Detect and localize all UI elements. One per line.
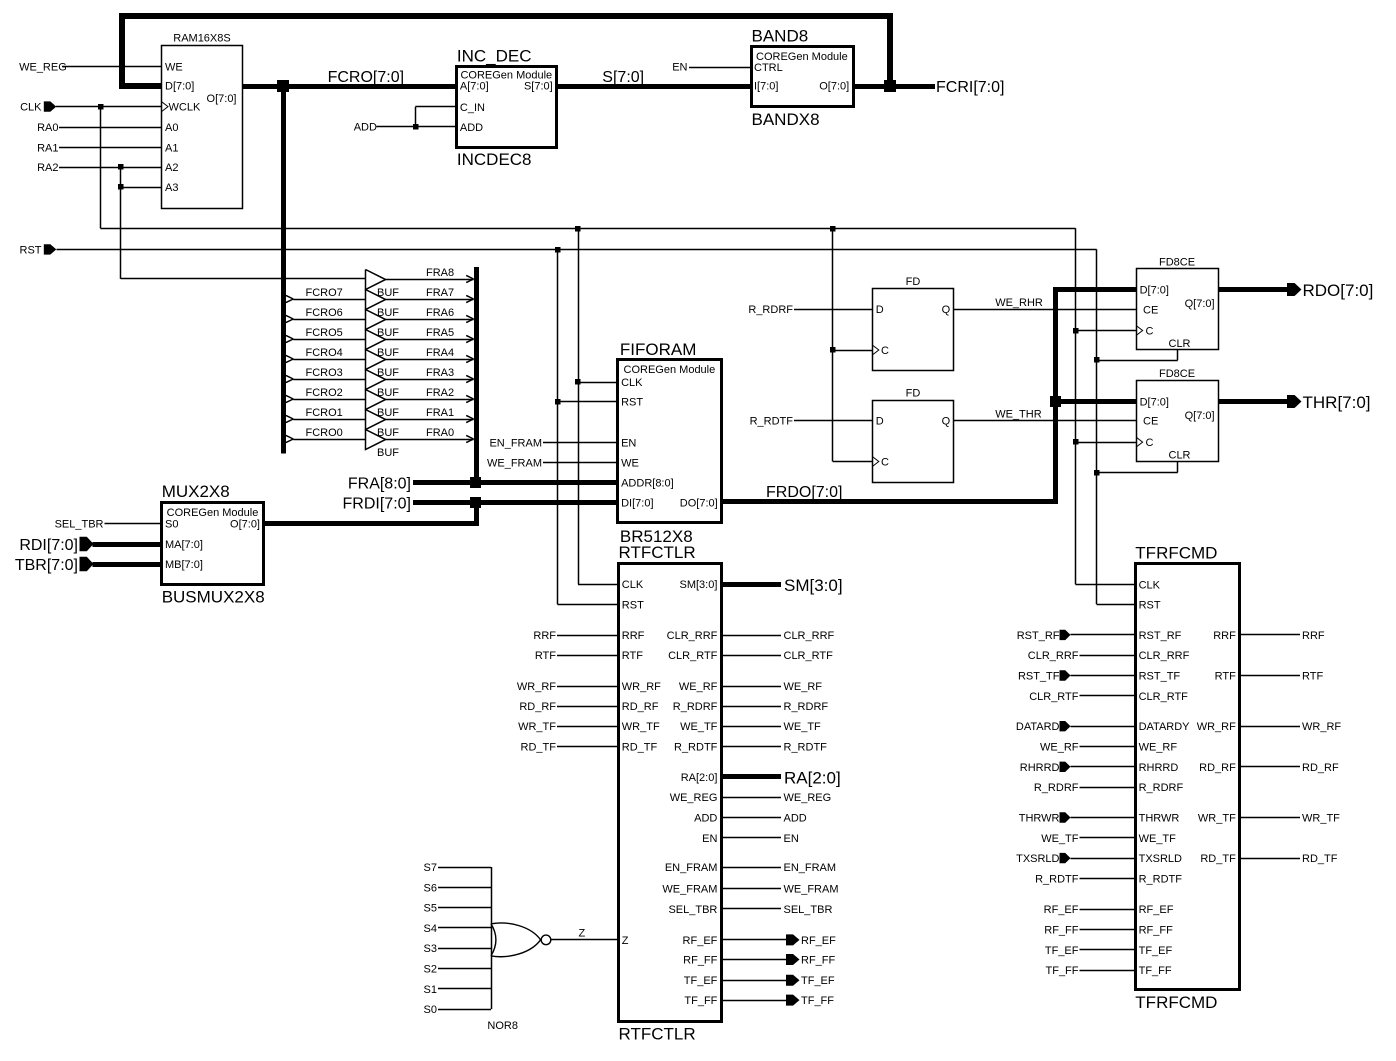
svg-text:EN_FRAM: EN_FRAM	[784, 862, 837, 874]
svg-text:RD_RF: RD_RF	[622, 701, 659, 713]
svg-text:S2: S2	[424, 964, 437, 976]
ram U_RAM16X8S	[162, 33, 243, 209]
svg-text:A0: A0	[165, 122, 178, 134]
port WE_TF input to TFRFCMD	[1041, 833, 1135, 845]
svg-text:FCRO6: FCRO6	[306, 307, 343, 319]
svg-text:CLR_RRF: CLR_RRF	[667, 630, 718, 642]
svg-text:WR_RF: WR_RF	[1302, 721, 1341, 733]
svg-text:D[7:0]: D[7:0]	[1140, 285, 1169, 297]
svg-text:WR_TF: WR_TF	[518, 721, 556, 733]
wire CLK branch to FD flip-flops	[833, 228, 873, 461]
svg-text:C: C	[881, 345, 889, 357]
svg-text:RDI[7:0]: RDI[7:0]	[19, 537, 78, 554]
bus THR[7:0] output	[1218, 399, 1287, 404]
junction FRDI	[470, 497, 481, 508]
svg-text:COREGen Module: COREGen Module	[624, 364, 716, 376]
svg-text:CLK: CLK	[1139, 579, 1161, 591]
svg-text:CLR_RRF: CLR_RRF	[1139, 650, 1190, 662]
svg-text:Z: Z	[622, 935, 629, 947]
svg-text:RA1: RA1	[37, 142, 58, 154]
svg-text:FRA0: FRA0	[426, 427, 454, 439]
port EN label and wire	[672, 62, 751, 74]
bus FCRO vertical to BUF taps	[281, 86, 286, 454]
svg-text:R_RDRF: R_RDRF	[748, 304, 793, 316]
gate U_NOR8	[424, 862, 551, 1032]
svg-text:RTF: RTF	[1215, 671, 1236, 683]
svg-text:Q[7:0]: Q[7:0]	[1185, 410, 1215, 422]
port RF_FF output	[721, 954, 836, 967]
svg-text:RD_TF: RD_TF	[1302, 853, 1338, 865]
svg-text:R_RDTF: R_RDTF	[750, 416, 794, 428]
svg-text:RD_RF: RD_RF	[1199, 762, 1236, 774]
junction FCRI	[884, 80, 896, 92]
svg-text:WE_THR: WE_THR	[995, 409, 1041, 421]
port RA1 input label and wire	[37, 142, 161, 154]
svg-text:CLR_RTF: CLR_RTF	[1029, 691, 1079, 703]
svg-text:FCRO1: FCRO1	[306, 407, 343, 419]
net ADD from RTFCTLR	[721, 813, 807, 825]
port RST_TF input to TFRFCMD	[1018, 670, 1135, 682]
bus BUSMUX output riser to FRDI	[264, 503, 477, 524]
svg-text:FD: FD	[906, 276, 921, 288]
svg-text:O[7:0]: O[7:0]	[207, 93, 237, 105]
junction RA2 at A3	[118, 184, 124, 190]
svg-text:C_IN: C_IN	[460, 102, 485, 114]
junction RST FIFORAM pin	[555, 399, 561, 405]
svg-text:CLR_RTF: CLR_RTF	[668, 650, 718, 662]
net RRF output from TFRFCMD	[1239, 630, 1325, 642]
svg-text:R_RDRF: R_RDRF	[673, 701, 718, 713]
svg-text:SEL_TBR: SEL_TBR	[55, 519, 104, 531]
block U_INCDEC8 INC_DEC	[457, 46, 557, 169]
svg-text:R_RDTF: R_RDTF	[1035, 873, 1079, 885]
svg-text:FRDI[7:0]: FRDI[7:0]	[343, 496, 411, 513]
svg-text:BUSMUX2X8: BUSMUX2X8	[162, 588, 265, 607]
svg-text:FCRO0: FCRO0	[306, 427, 343, 439]
port TF_EF output	[721, 975, 835, 988]
wire CLK branch to FD8CE clocks	[1076, 331, 1137, 443]
wire RST branch to FIFORAM and RTFCTLR	[558, 249, 619, 604]
net R_RDTF from RTFCTLR	[721, 741, 827, 753]
net CLR_RRF from RTFCTLR	[721, 630, 835, 642]
svg-text:RST_RF: RST_RF	[1139, 630, 1182, 642]
svg-text:S0: S0	[165, 519, 178, 531]
svg-text:FCRI[7:0]: FCRI[7:0]	[936, 79, 1004, 96]
svg-text:CLR_RTF: CLR_RTF	[784, 650, 834, 662]
svg-text:CLR: CLR	[1169, 338, 1191, 350]
svg-text:FCRO4: FCRO4	[306, 347, 343, 359]
port WE_RF input to TFRFCMD	[1040, 742, 1135, 754]
bus RA[2:0] output	[721, 774, 781, 779]
block U_RTFCTLR	[619, 543, 722, 1044]
net WE_FRAM from RTFCTLR	[721, 884, 839, 896]
svg-text:S[7:0]: S[7:0]	[602, 69, 644, 86]
svg-text:WE_TF: WE_TF	[784, 721, 822, 733]
svg-text:RST: RST	[621, 397, 643, 409]
port RF_FF input to TFRFCMD	[1044, 925, 1135, 937]
svg-text:WCLK: WCLK	[169, 102, 201, 114]
svg-text:SM[3:0]: SM[3:0]	[784, 576, 843, 595]
port RA2 input label	[37, 162, 58, 174]
port RD_RF input to RTFCTLR	[519, 701, 618, 713]
svg-text:WE_RF: WE_RF	[1040, 742, 1079, 754]
svg-text:RD_RF: RD_RF	[1302, 762, 1339, 774]
block U_TFRFCMD	[1135, 544, 1239, 1012]
svg-text:MB[7:0]: MB[7:0]	[165, 559, 203, 571]
net RD_TF output from TFRFCMD	[1239, 853, 1337, 865]
svg-text:A3: A3	[165, 182, 178, 194]
svg-text:TF_EF: TF_EF	[1139, 945, 1173, 957]
svg-text:WE_FRAM: WE_FRAM	[487, 457, 542, 469]
svg-text:RST: RST	[622, 599, 644, 611]
svg-text:CLR_RRF: CLR_RRF	[1028, 650, 1079, 662]
port RD_TF input to RTFCTLR	[521, 741, 619, 753]
svg-text:WE_RF: WE_RF	[784, 681, 823, 693]
svg-text:RTF: RTF	[535, 650, 556, 662]
svg-text:FCRO5: FCRO5	[306, 327, 343, 339]
svg-text:WR_RF: WR_RF	[1197, 721, 1236, 733]
svg-text:RF_EF: RF_EF	[1044, 904, 1079, 916]
svg-text:RTFCTLR: RTFCTLR	[619, 1025, 696, 1044]
svg-text:COREGen Module: COREGen Module	[167, 507, 259, 519]
svg-text:ADD: ADD	[784, 813, 807, 825]
svg-text:S3: S3	[424, 943, 437, 955]
svg-text:RD_TF: RD_TF	[521, 741, 557, 753]
port R_RDTF input to TFRFCMD	[1035, 873, 1135, 885]
svg-text:WE_REG: WE_REG	[670, 792, 718, 804]
bus TBR[7:0] input	[93, 562, 162, 567]
port RRF input to RTFCTLR	[533, 630, 618, 642]
svg-text:DO[7:0]: DO[7:0]	[680, 498, 718, 510]
svg-text:ADDR[8:0]: ADDR[8:0]	[621, 478, 674, 490]
svg-text:ADD: ADD	[354, 122, 377, 134]
svg-text:WE_RF: WE_RF	[1139, 742, 1178, 754]
port CLR_RTF input to TFRFCMD	[1029, 691, 1135, 703]
port RST_RF input to TFRFCMD	[1017, 630, 1135, 642]
svg-text:EN: EN	[621, 438, 636, 450]
svg-text:TXSRLD: TXSRLD	[1139, 853, 1182, 865]
svg-text:RTF: RTF	[1302, 671, 1323, 683]
svg-text:TF_EF: TF_EF	[1045, 945, 1079, 957]
svg-text:RST: RST	[20, 244, 42, 256]
net WE_TF from RTFCTLR	[721, 721, 821, 733]
svg-text:WR_TF: WR_TF	[1198, 813, 1236, 825]
junction RST column FIFORAM	[555, 247, 561, 253]
svg-text:RTFCTLR: RTFCTLR	[619, 543, 696, 562]
svg-text:CLR: CLR	[1169, 450, 1191, 462]
svg-text:FRA4: FRA4	[426, 347, 454, 359]
svg-text:TF_FF: TF_FF	[801, 995, 834, 1007]
port EN_FRAM label and wire	[489, 438, 617, 450]
junction CLK column FIFORAM	[575, 226, 581, 232]
pins RTFCTLR left pin names	[622, 579, 661, 947]
net CLR_RTF from RTFCTLR	[721, 650, 833, 662]
svg-text:RF_FF: RF_FF	[1139, 925, 1174, 937]
pins TFRFCMD left pin names	[1139, 579, 1191, 977]
svg-text:RF_FF: RF_FF	[683, 955, 718, 967]
wire CLK branch to FIFORAM and RTFCTLR	[578, 228, 618, 584]
svg-text:WE_TF: WE_TF	[1139, 833, 1177, 845]
svg-text:TFRFCMD: TFRFCMD	[1135, 544, 1217, 563]
bus SM[3:0] output	[721, 582, 781, 587]
svg-text:O[7:0]: O[7:0]	[819, 81, 849, 93]
bus FRDI[7:0] into FIFORAM DI	[413, 500, 618, 505]
svg-text:R_RDTF: R_RDTF	[1139, 873, 1183, 885]
buffer BUF bit 1	[286, 407, 474, 439]
port SEL_TBR label and wire	[55, 519, 162, 531]
buffer BUF bit 8	[366, 267, 474, 299]
port TF_EF input to TFRFCMD	[1045, 945, 1135, 957]
wire R_RDRF to FD1 D	[748, 304, 872, 316]
svg-text:RA[2:0]: RA[2:0]	[784, 769, 841, 788]
svg-text:EN_FRAM: EN_FRAM	[489, 438, 542, 450]
port TF_FF output	[721, 995, 834, 1008]
svg-text:EN: EN	[672, 62, 687, 74]
bus FCRI feedback loop top	[122, 16, 890, 86]
buffer BUF bit 3	[286, 367, 474, 399]
svg-text:SM[3:0]: SM[3:0]	[679, 579, 717, 591]
svg-text:Q: Q	[942, 416, 951, 428]
svg-text:FCRO[7:0]: FCRO[7:0]	[328, 69, 404, 86]
net RD_RF output from TFRFCMD	[1239, 762, 1339, 774]
svg-text:TF_EF: TF_EF	[684, 975, 718, 987]
svg-text:SEL_TBR: SEL_TBR	[784, 904, 833, 916]
svg-text:RTF: RTF	[622, 650, 643, 662]
wire RA2 net to A2 A3 and top BUF input	[59, 167, 365, 279]
svg-text:CLK: CLK	[621, 377, 643, 389]
svg-text:RF_EF: RF_EF	[1139, 904, 1174, 916]
net WR_TF output from TFRFCMD	[1239, 813, 1340, 825]
svg-text:MUX2X8: MUX2X8	[162, 482, 230, 501]
svg-text:WE_TF: WE_TF	[680, 721, 718, 733]
wire RST branch to FD8CE CLR pins	[1097, 350, 1178, 473]
svg-text:TBR[7:0]: TBR[7:0]	[15, 557, 78, 574]
port TBR[7:0] input	[15, 557, 94, 574]
svg-text:RD_TF: RD_TF	[1200, 853, 1236, 865]
junction FRDO	[1050, 396, 1061, 407]
svg-text:S4: S4	[424, 923, 437, 935]
net WE_REG from RTFCTLR	[721, 792, 831, 804]
svg-text:TF_FF: TF_FF	[1046, 965, 1079, 977]
svg-text:RA[2:0]: RA[2:0]	[681, 772, 718, 784]
svg-text:INC_DEC: INC_DEC	[457, 46, 532, 65]
junction CLK FIFORAM pin	[575, 379, 581, 385]
junction CLK column FD	[830, 226, 836, 232]
junction FRA	[470, 477, 481, 488]
svg-text:WE_RF: WE_RF	[679, 681, 718, 693]
svg-text:Z: Z	[579, 928, 586, 940]
bus FRDO[7:0] from FIFORAM DO to FD8CE D inputs	[722, 290, 1137, 502]
bus RDI[7:0] input	[93, 542, 162, 547]
svg-text:FRA[8:0]: FRA[8:0]	[348, 476, 411, 493]
wire Z NOR8 to RTFCTLR	[551, 928, 618, 940]
svg-text:CLK: CLK	[622, 579, 644, 591]
svg-text:CLR_RRF: CLR_RRF	[784, 630, 835, 642]
svg-text:WE: WE	[165, 62, 183, 74]
svg-text:EN: EN	[784, 833, 799, 845]
svg-text:CLK: CLK	[20, 102, 42, 114]
bus FRA[8:0] into FIFORAM ADDR	[413, 480, 618, 485]
wire WE_RHR FD1 Q to FD8CE1 CE	[954, 297, 1136, 310]
port DATARD input to TFRFCMD	[1016, 721, 1135, 733]
svg-text:RF_EF: RF_EF	[683, 935, 718, 947]
buffer BUF bit 2	[286, 387, 474, 419]
port WE_FRAM label and wire	[487, 457, 618, 469]
pins TFRFCMD right pin names	[1197, 630, 1236, 865]
svg-text:S5: S5	[424, 903, 437, 915]
net WE_RF from RTFCTLR	[721, 681, 822, 693]
junction FD8CE2 clock	[1073, 439, 1079, 445]
svg-text:S[7:0]: S[7:0]	[524, 81, 553, 93]
junction CLK at WCLK	[98, 104, 104, 110]
svg-text:DI[7:0]: DI[7:0]	[621, 498, 653, 510]
svg-text:RST_TF: RST_TF	[1018, 671, 1060, 683]
net RTF output from TFRFCMD	[1239, 671, 1323, 683]
svg-text:CLR_RTF: CLR_RTF	[1139, 691, 1189, 703]
svg-text:RA0: RA0	[37, 122, 58, 134]
svg-text:S0: S0	[424, 1004, 437, 1016]
svg-text:C: C	[1146, 326, 1154, 338]
wire CLK net horizontal/vertical distribution	[56, 107, 1135, 585]
svg-text:FD8CE: FD8CE	[1159, 257, 1195, 269]
svg-text:RHRRD: RHRRD	[1139, 762, 1179, 774]
svg-text:R_RDRF: R_RDRF	[1034, 782, 1079, 794]
wire RST net distribution	[57, 249, 1136, 604]
register U_FD8CE2 FD8CE	[1136, 368, 1218, 461]
svg-text:RRF: RRF	[533, 630, 556, 642]
svg-text:R_RDRF: R_RDRF	[1139, 782, 1184, 794]
port RA0 input label and wire	[37, 122, 161, 134]
svg-text:RA2: RA2	[37, 162, 58, 174]
svg-text:RRF: RRF	[1213, 630, 1236, 642]
port TF_FF input to TFRFCMD	[1046, 965, 1136, 977]
svg-text:WE_REG: WE_REG	[784, 792, 832, 804]
junction FD1 clock	[830, 347, 836, 353]
svg-text:EN_FRAM: EN_FRAM	[665, 862, 718, 874]
svg-text:A[7:0]: A[7:0]	[460, 81, 489, 93]
svg-text:RD_RF: RD_RF	[519, 701, 556, 713]
svg-text:Q[7:0]: Q[7:0]	[1185, 298, 1215, 310]
svg-text:TFRFCMD: TFRFCMD	[1135, 993, 1217, 1012]
svg-text:WR_RF: WR_RF	[622, 681, 661, 693]
port WR_TF input to RTFCTLR	[518, 721, 618, 733]
bus FRA vertical from BUF outputs	[474, 267, 479, 483]
junction FD8CE1 clock	[1073, 328, 1079, 334]
svg-text:BAND8: BAND8	[752, 27, 809, 46]
svg-text:O[7:0]: O[7:0]	[230, 519, 260, 531]
svg-text:RRF: RRF	[622, 630, 645, 642]
svg-text:CE: CE	[1143, 416, 1158, 428]
svg-text:RRF: RRF	[1302, 630, 1325, 642]
svg-text:S7: S7	[424, 862, 437, 874]
svg-text:FRDO[7:0]: FRDO[7:0]	[766, 484, 842, 501]
svg-text:RDO[7:0]: RDO[7:0]	[1303, 281, 1374, 300]
buffer BUF bit 6	[286, 307, 474, 339]
port ADD input label and wires	[354, 107, 457, 134]
svg-text:WE: WE	[621, 457, 639, 469]
svg-text:TF_EF: TF_EF	[801, 975, 835, 987]
svg-text:WE_REG: WE_REG	[19, 62, 67, 74]
svg-text:R_RDTF: R_RDTF	[674, 741, 718, 753]
bus S[7:0] INC_DEC to BAND8	[556, 84, 751, 89]
junction RA2 at A2	[118, 164, 124, 170]
svg-text:CE: CE	[1143, 304, 1158, 316]
svg-text:A1: A1	[165, 142, 178, 154]
svg-text:R_RDRF: R_RDRF	[784, 701, 829, 713]
svg-text:R_RDTF: R_RDTF	[784, 741, 828, 753]
svg-text:D: D	[876, 304, 884, 316]
wire R_RDTF to FD2 D	[750, 416, 873, 428]
svg-text:ADD: ADD	[460, 122, 483, 134]
net WR_RF output from TFRFCMD	[1239, 721, 1341, 733]
port RF_EF input to TFRFCMD	[1044, 904, 1135, 916]
buffer BUF bit 4	[286, 347, 474, 379]
port RF_EF output	[721, 934, 836, 947]
svg-text:FD: FD	[906, 388, 921, 400]
svg-text:RF_FF: RF_FF	[1044, 925, 1079, 937]
svg-text:FRA2: FRA2	[426, 387, 454, 399]
block U_BUSMUX2X8 MUX2X8	[162, 482, 265, 607]
svg-text:DATARDY: DATARDY	[1139, 721, 1191, 733]
svg-text:I[7:0]: I[7:0]	[754, 81, 778, 93]
svg-text:WE_RHR: WE_RHR	[995, 297, 1043, 309]
port RTF input to RTFCTLR	[535, 650, 618, 662]
buffer BUF bit 7	[286, 287, 474, 319]
svg-text:EN: EN	[702, 833, 717, 845]
svg-text:WR_RF: WR_RF	[517, 681, 556, 693]
svg-text:D: D	[876, 416, 884, 428]
svg-text:THRWR: THRWR	[1019, 813, 1060, 825]
junction FD8CE2 clear	[1094, 470, 1100, 476]
junction ADD C_IN	[413, 124, 419, 130]
svg-text:D[7:0]: D[7:0]	[165, 81, 194, 93]
svg-text:FIFORAM: FIFORAM	[620, 340, 697, 359]
svg-text:BUF: BUF	[377, 447, 399, 459]
port RHRRD input to TFRFCMD	[1020, 762, 1135, 774]
flip-flop U_FD2 FD	[872, 388, 953, 483]
svg-text:A2: A2	[165, 162, 178, 174]
svg-text:D[7:0]: D[7:0]	[1140, 397, 1169, 409]
svg-text:FCRO7: FCRO7	[306, 287, 343, 299]
svg-text:RST_RF: RST_RF	[1017, 630, 1060, 642]
junction FD8CE1 clear	[1094, 357, 1100, 363]
svg-text:FRA5: FRA5	[426, 327, 454, 339]
svg-text:FRA6: FRA6	[426, 307, 454, 319]
svg-text:FCRO3: FCRO3	[306, 367, 343, 379]
svg-text:WR_TF: WR_TF	[622, 721, 660, 733]
svg-text:S6: S6	[424, 882, 437, 894]
bus FCRI out of BANDX8	[853, 84, 935, 89]
port TXSRLD input to TFRFCMD	[1016, 853, 1135, 865]
svg-text:C: C	[1146, 437, 1154, 449]
port RDO[7:0] output	[1287, 281, 1373, 300]
net SEL_TBR from RTFCTLR	[721, 904, 833, 916]
wire WE_THR FD2 Q to FD8CE2 CE	[954, 409, 1136, 421]
svg-text:SEL_TBR: SEL_TBR	[668, 904, 717, 916]
net R_RDRF from RTFCTLR	[721, 701, 828, 713]
svg-text:ADD: ADD	[694, 813, 717, 825]
svg-text:FRA8: FRA8	[426, 267, 454, 279]
block U_BANDX8 BAND8	[752, 27, 854, 129]
svg-text:NOR8: NOR8	[487, 1020, 518, 1032]
port CLK input	[20, 101, 56, 113]
svg-text:C: C	[881, 457, 889, 469]
port RDI[7:0] input	[19, 537, 93, 554]
svg-text:S1: S1	[424, 984, 437, 996]
bus RDO[7:0] output	[1218, 287, 1287, 292]
port CLR_RRF input to TFRFCMD	[1028, 650, 1135, 662]
svg-text:FCRO2: FCRO2	[306, 387, 343, 399]
